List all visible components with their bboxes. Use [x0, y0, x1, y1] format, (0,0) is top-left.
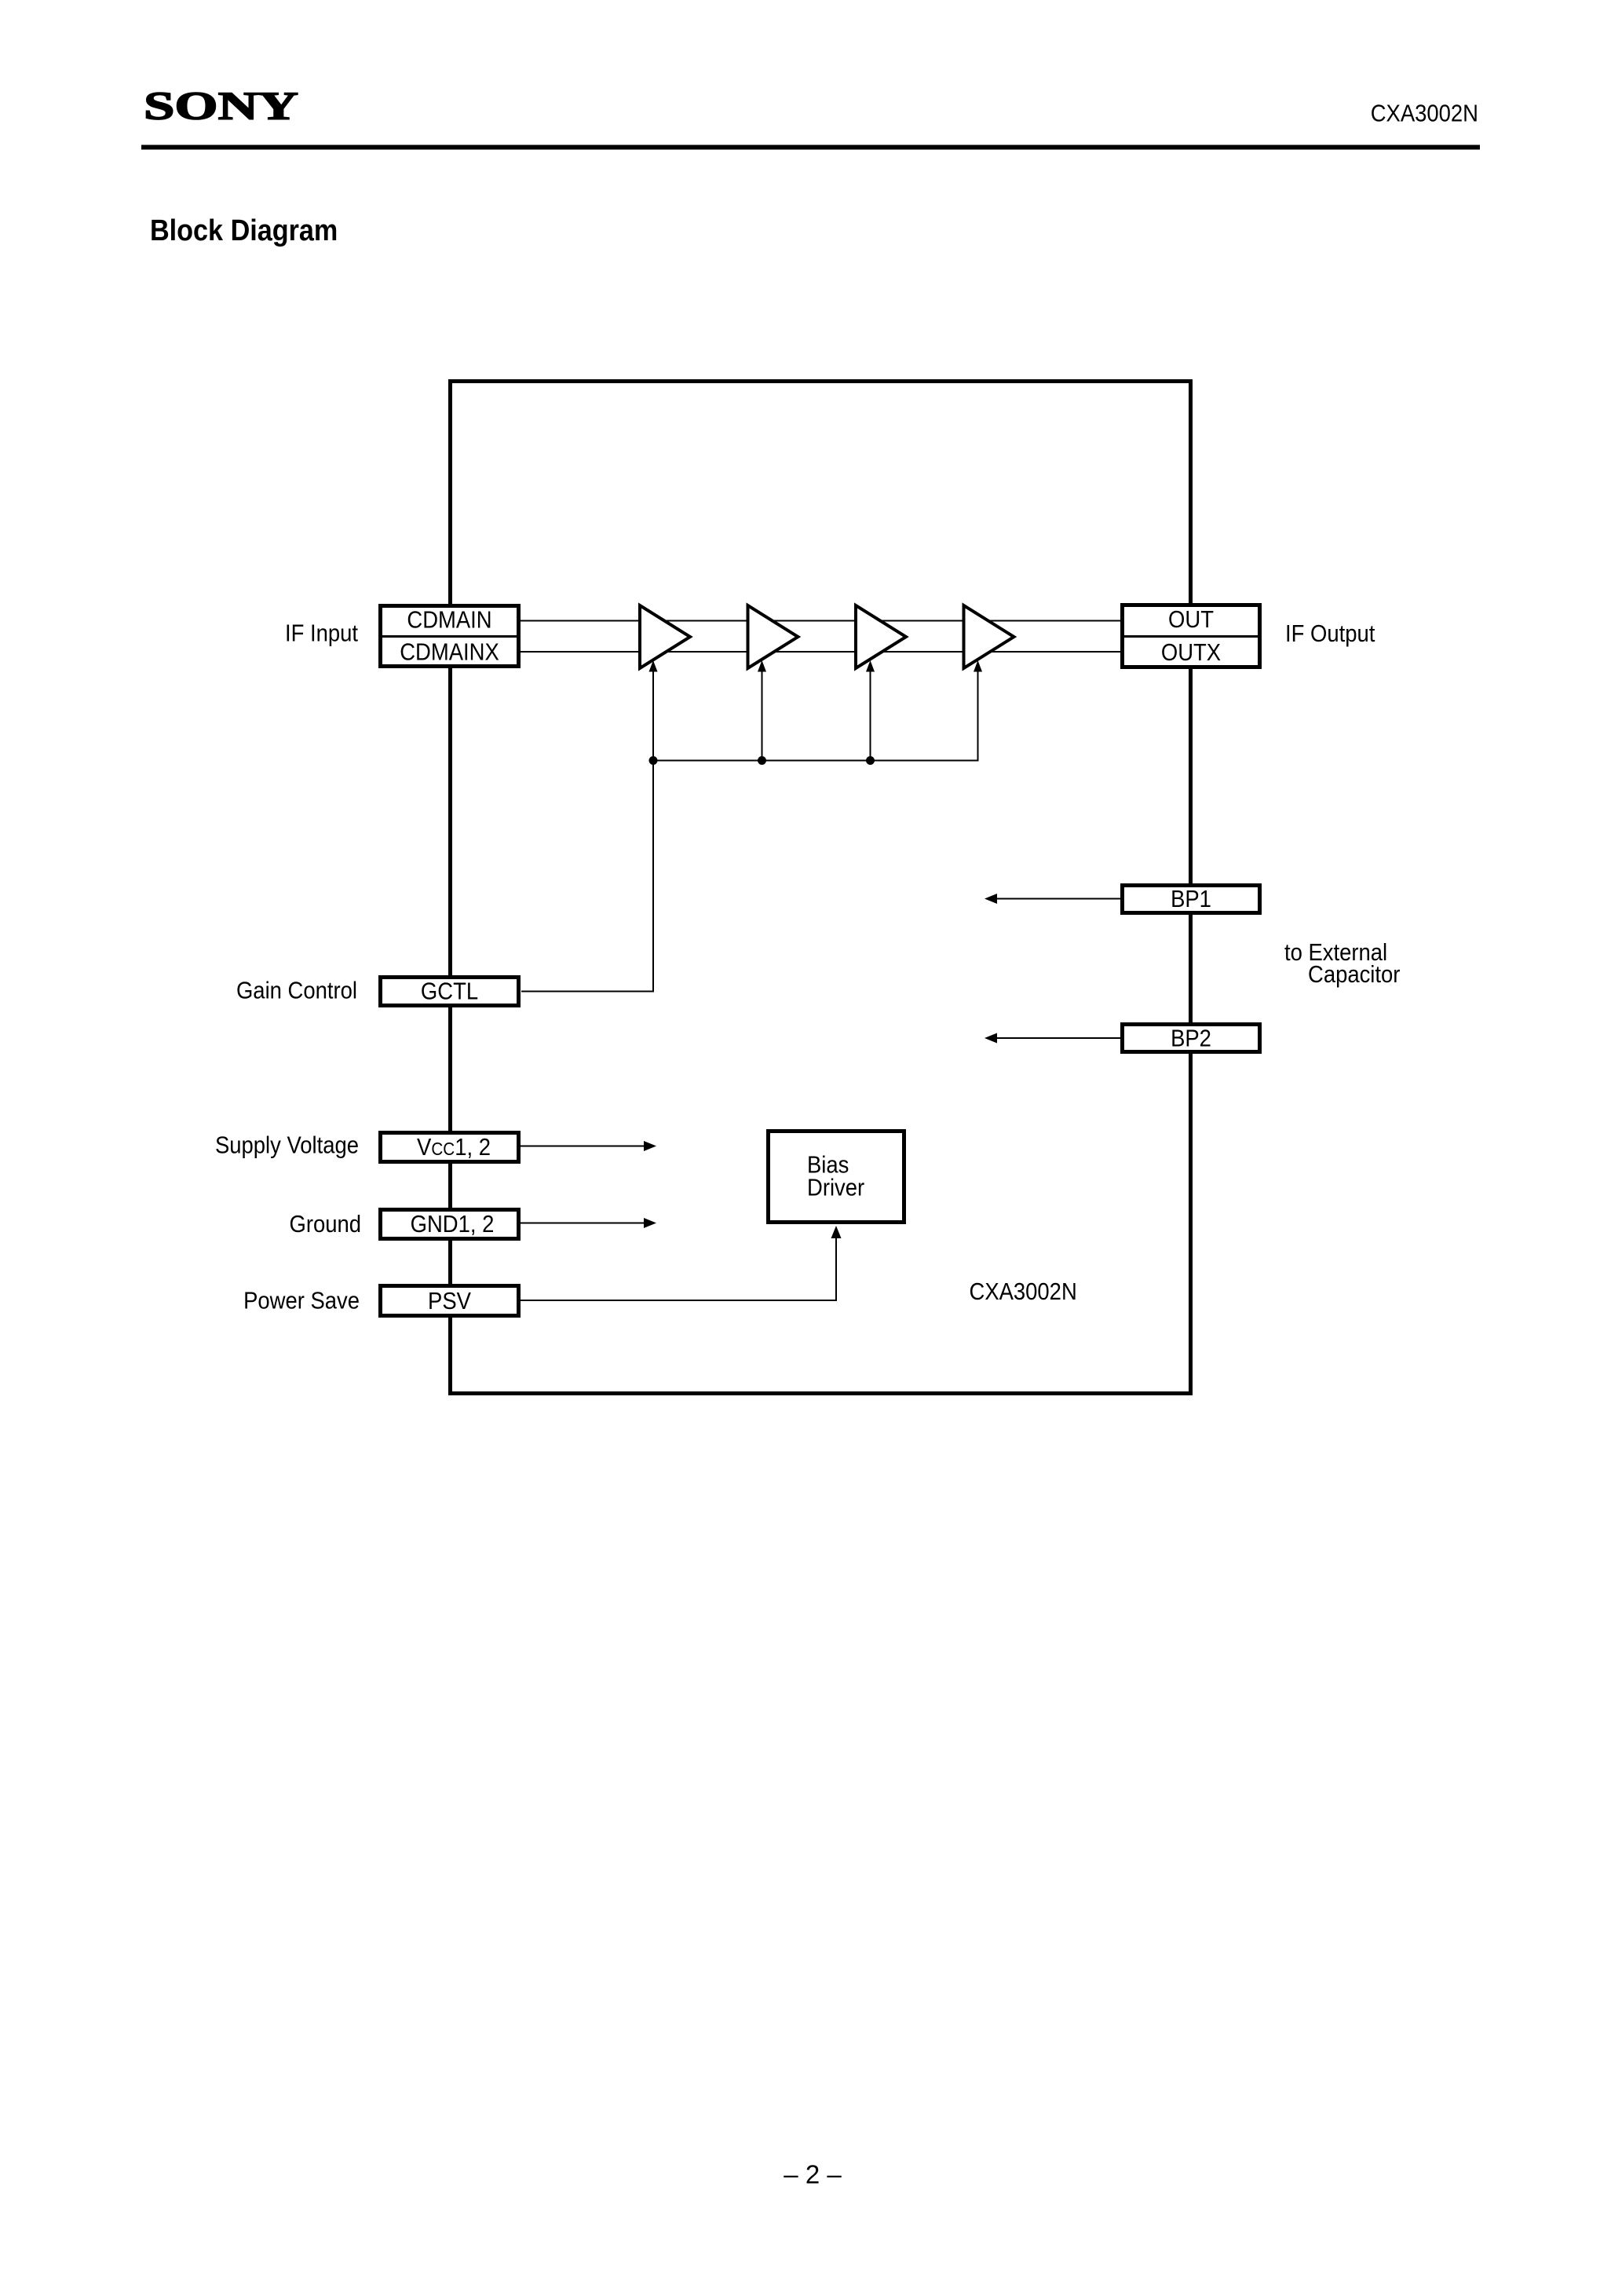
- svg-text:CDMAIN: CDMAIN: [407, 607, 491, 634]
- svg-text:– 2 –: – 2 –: [784, 2160, 842, 2189]
- port box GND1,2: [381, 1210, 519, 1239]
- svg-text:Ground: Ground: [289, 1212, 361, 1238]
- svg-text:Block Diagram: Block Diagram: [150, 213, 338, 247]
- svg-text:PSV: PSV: [428, 1289, 472, 1315]
- arrowhead BP1: [985, 894, 997, 904]
- wire gain riser to A3: [870, 671, 871, 761]
- wire arrow from Vcc: [521, 1146, 645, 1147]
- junction dot at riser A3: [866, 756, 875, 765]
- svg-text:CDMAINX: CDMAINX: [400, 639, 499, 666]
- arrowhead into A4: [974, 660, 982, 672]
- svg-text:Supply Voltage: Supply Voltage: [215, 1132, 359, 1159]
- arrowhead Vcc: [644, 1141, 656, 1151]
- wire arrow from GND: [521, 1223, 645, 1224]
- IC outline box CXA3002N: [451, 382, 1191, 1394]
- svg-text:Driver: Driver: [807, 1175, 864, 1201]
- port box CDMAIN / CDMAINX: [381, 606, 519, 667]
- arrowhead into A2: [758, 660, 766, 672]
- port box BP1: [1123, 886, 1260, 913]
- arrowhead into A1: [649, 660, 658, 672]
- wire CDMAINX signal (bottom): [521, 651, 1120, 653]
- amplifier A1: [640, 605, 690, 668]
- svg-text:Power Save: Power Save: [243, 1288, 360, 1314]
- wire arrow from BP2: [995, 1037, 1120, 1039]
- svg-text:VCC1, 2: VCC1, 2: [417, 1135, 491, 1161]
- svg-text:BP1: BP1: [1171, 887, 1211, 913]
- junction dot at riser A1: [649, 756, 658, 765]
- port box PSV: [381, 1286, 519, 1316]
- header rule: [141, 145, 1480, 150]
- block Bias Driver: [769, 1132, 904, 1223]
- wire CDMAIN signal (top): [521, 620, 1120, 622]
- wire PSV to bias driver: [521, 1237, 836, 1300]
- svg-text:CXA3002N: CXA3002N: [1371, 101, 1478, 127]
- svg-text:IF Output: IF Output: [1285, 621, 1375, 648]
- svg-text:Gain Control: Gain Control: [236, 978, 357, 1004]
- amplifier A2: [748, 605, 798, 668]
- svg-text:CXA3002N: CXA3002N: [970, 1279, 1077, 1306]
- arrowhead into bias driver: [831, 1226, 842, 1238]
- svg-text:IF Input: IF Input: [285, 620, 358, 647]
- port box BP2: [1123, 1025, 1260, 1052]
- svg-text:OUT: OUT: [1168, 607, 1214, 634]
- svg-text:BP2: BP2: [1171, 1026, 1211, 1052]
- wire gain control from GCTL: [521, 761, 653, 992]
- wire arrow from BP1: [995, 898, 1120, 900]
- svg-text:SONY: SONY: [144, 85, 298, 129]
- svg-text:GCTL: GCTL: [421, 978, 478, 1005]
- port box OUT / OUTX: [1123, 605, 1260, 667]
- wire gain riser to A2: [762, 671, 763, 761]
- port box GCTL: [381, 978, 519, 1006]
- arrowhead into A3: [866, 660, 875, 672]
- wire gain riser to A1: [652, 671, 654, 761]
- wire gain bus: [653, 671, 978, 761]
- arrowhead BP2: [985, 1033, 997, 1044]
- svg-text:Capacitor: Capacitor: [1308, 962, 1401, 989]
- arrowhead GND: [644, 1218, 656, 1228]
- port box Vcc1,2: [381, 1133, 519, 1162]
- svg-text:GND1, 2: GND1, 2: [411, 1212, 495, 1238]
- amplifier A3: [856, 605, 906, 668]
- svg-text:OUTX: OUTX: [1161, 640, 1221, 667]
- amplifier A4: [964, 605, 1014, 668]
- junction dot at riser A2: [758, 756, 766, 765]
